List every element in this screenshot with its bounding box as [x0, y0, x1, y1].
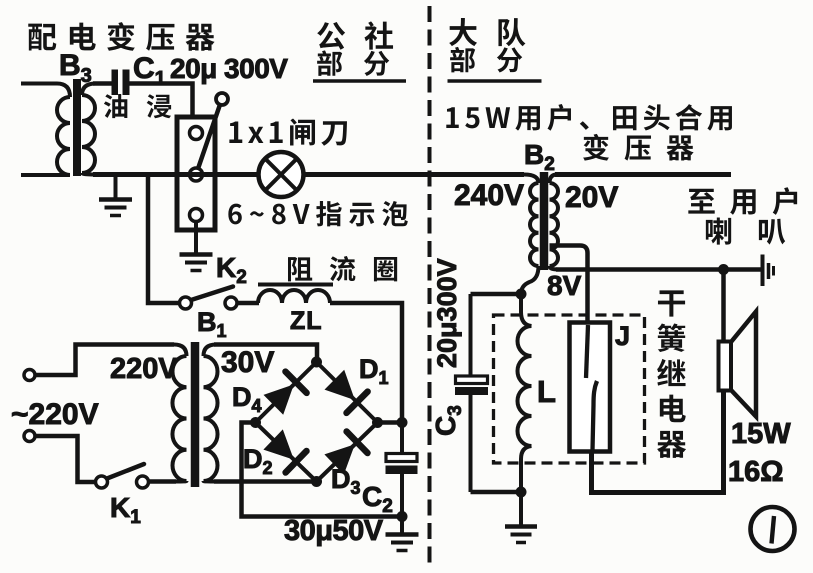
inductor L (relay coil) — [521, 294, 532, 326]
label 油浸 (oil immersed) — [104, 94, 171, 118]
transformer B3 core — [73, 79, 81, 176]
wire B1 secondary top to bridge — [214, 345, 317, 361]
wire C3 bottom to coil bottom — [471, 490, 522, 495]
wire C1 to knife switch — [130, 84, 193, 119]
wire mains top to B1 — [36, 345, 175, 376]
relay J reed capsule — [570, 323, 611, 452]
svg-text:20μ300V: 20μ300V — [432, 258, 462, 368]
transformer B1 secondary coil (30V) — [204, 345, 217, 357]
wire 至用户 line — [555, 172, 731, 177]
svg-text:15W: 15W — [731, 418, 791, 450]
switch K2 blade — [191, 287, 233, 301]
indicator lamp 6~8V — [259, 152, 304, 197]
wire bridge right node to C2 branch — [378, 420, 403, 425]
svg-text:30V: 30V — [221, 346, 274, 379]
label 至用户 — [688, 187, 797, 215]
speaker 15W 16Ω — [719, 342, 732, 391]
wire bus to switch K2 — [148, 175, 180, 304]
figure number ① — [751, 507, 795, 551]
ground (relay) — [505, 492, 537, 543]
ground (C2) — [386, 517, 419, 551]
node speaker junction — [718, 264, 729, 275]
knife switch terminals — [190, 127, 203, 140]
knife switch blade — [196, 106, 220, 175]
choke ZL core line — [258, 283, 333, 287]
label 15W用户、田头合用 — [446, 104, 732, 131]
wire reed bottom to speaker return — [592, 391, 724, 493]
wire choke to bridge positive node — [330, 303, 402, 420]
svg-text:16Ω: 16Ω — [728, 456, 784, 488]
wire bridge edges — [256, 362, 317, 423]
dashed enclosure (reed relay) — [494, 315, 645, 463]
wire 8V line — [556, 267, 761, 272]
node C3 top tee — [516, 289, 527, 300]
line end symbol (to user speakers) — [761, 255, 765, 287]
wire K2 to choke — [237, 301, 259, 306]
ground (knife switch bottom) — [180, 222, 213, 271]
capacitor C2 (electrolytic) — [400, 423, 404, 454]
svg-text:30μ50V: 30μ50V — [284, 515, 384, 547]
svg-text:L: L — [537, 374, 556, 409]
switch K2 terminals — [180, 297, 192, 309]
node C2 bottom tee — [397, 511, 408, 522]
label 阻流圈 — [288, 256, 397, 281]
svg-text:20μ 300V: 20μ 300V — [170, 53, 288, 84]
wire main bus — [93, 172, 524, 177]
choke ZL coil — [258, 290, 330, 303]
transformer B2 secondary coil (20V) — [550, 175, 558, 184]
wire junction to speaker — [721, 270, 726, 343]
wire 8V tap to relay reed — [550, 246, 588, 323]
terminal mains bottom — [24, 431, 35, 442]
svg-text:8V: 8V — [547, 270, 582, 301]
transformer B2 core — [540, 172, 549, 270]
label: 公社部分 (commune section) — [313, 21, 406, 81]
wire negative return to bridge left node — [242, 423, 403, 517]
knife switch 1×1闸刀 box — [177, 117, 215, 230]
label 变压器 — [583, 134, 694, 161]
wire B3 secondary top to C1 — [93, 81, 112, 86]
switch K1 blade — [107, 464, 144, 479]
capacitor C3 — [469, 294, 473, 376]
transformer B2 primary coil (240V) — [524, 175, 539, 184]
label: 大队部分 (brigade section) — [448, 18, 542, 81]
section divider dashed line — [428, 6, 432, 564]
diode D2 — [263, 429, 294, 459]
wire K1 to B1 — [149, 479, 177, 484]
svg-text:ZL: ZL — [290, 307, 323, 335]
wire B1 secondary bottom to bridge — [214, 479, 317, 484]
node C2 top tee — [397, 417, 408, 428]
label 干簧继电器 (vertical) — [657, 290, 686, 457]
wire B2 primary bottom tee — [471, 292, 522, 297]
wire mains bottom to K1 — [36, 436, 96, 482]
node bridge right — [372, 417, 383, 428]
node bridge bottom — [311, 476, 322, 487]
transformer B3 primary coil + stubs — [21, 84, 70, 98]
switch K1 terminals — [96, 476, 108, 488]
svg-text:J: J — [615, 321, 630, 351]
label 1×1闸刀 — [229, 119, 347, 146]
relay J reed contacts — [586, 325, 588, 378]
label 配电变压器 — [28, 22, 214, 51]
svg-text:220V: 220V — [110, 353, 178, 385]
diode D3 — [324, 444, 355, 474]
diode D4 — [264, 384, 294, 414]
svg-text:240V: 240V — [454, 179, 524, 212]
transformer B1 core — [191, 342, 200, 487]
terminal mains top — [24, 370, 35, 381]
knife switch handle hook — [216, 93, 228, 105]
svg-text:20V: 20V — [565, 181, 618, 214]
node bridge left — [250, 417, 261, 428]
label 6~8V指示泡 — [228, 201, 407, 226]
diode D1 — [325, 370, 355, 400]
transformer B1 primary coil (220V) — [174, 345, 187, 357]
ground (B3 secondary) — [99, 175, 132, 216]
capacitor C1 — [112, 70, 119, 96]
node bridge top — [311, 357, 322, 368]
label 喇叭 — [706, 217, 785, 244]
svg-text:~220V: ~220V — [11, 398, 99, 431]
node relay coil bottom tee — [516, 487, 527, 498]
transformer B3 secondary coil — [82, 84, 96, 96]
